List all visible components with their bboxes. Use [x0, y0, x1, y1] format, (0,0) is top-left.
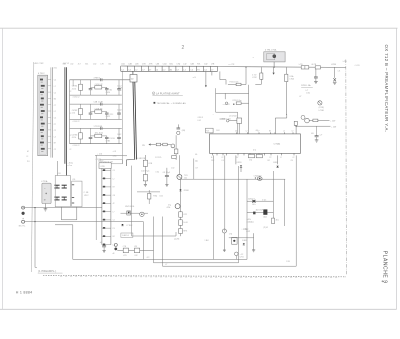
- IC U1 bottom pins: [212, 153, 214, 155]
- svg-text:B4: B4: [54, 99, 56, 101]
- svg-text:TECHNICAL + FORMULAS: TECHNICAL + FORMULAS: [157, 102, 187, 105]
- resistor R21 lead: [285, 82, 287, 115]
- svg-text:P7: P7: [54, 124, 56, 126]
- svg-text:+ 12V: + 12V: [330, 121, 336, 123]
- crystal X1 drop: [334, 67, 336, 78]
- step wire: [274, 118, 276, 134]
- svg-text:4C2: 4C2: [147, 257, 150, 259]
- connector CN1 pin stubs: [48, 79, 51, 81]
- wire into P2: [220, 118, 226, 120]
- svg-text:C426 L4P: C426 L4P: [95, 84, 104, 86]
- filter block 3 coupling cap: [100, 127, 102, 130]
- svg-text:L2: L2: [54, 111, 56, 113]
- svg-text:L/4: L/4: [338, 71, 340, 73]
- wire W3 down: [162, 217, 164, 267]
- capacitor C13: [118, 80, 120, 89]
- svg-text:MIC P.U.: MIC P.U.: [19, 225, 26, 227]
- wire h196: [137, 191, 160, 193]
- svg-text:L7: L7: [113, 211, 115, 213]
- supply rail wire: [296, 125, 330, 127]
- page bottom edge: [0, 308, 397, 310]
- svg-text:+ C/2Ω: + C/2Ω: [242, 228, 248, 230]
- resistor R20 lead: [260, 79, 262, 84]
- wire v3: [248, 85, 250, 134]
- svg-text:C4: C4: [54, 118, 56, 120]
- svg-text:C/42: C/42: [171, 168, 174, 170]
- svg-text:4k/L: 4k/L: [276, 219, 279, 221]
- svg-text:C/Ω2: C/Ω2: [216, 130, 220, 132]
- svg-text:P2: P2: [269, 157, 271, 159]
- svg-text:C42: C42: [204, 64, 207, 66]
- bus wire B: [52, 67, 54, 157]
- transistor Q10: [318, 101, 322, 105]
- relay K1 inner contact: [267, 54, 275, 60]
- transistor Q14: [222, 229, 226, 233]
- svg-text:(4Ω): (4Ω): [182, 130, 186, 132]
- svg-text:B4: B4: [269, 131, 271, 133]
- ground under C41: [165, 184, 168, 186]
- resistor R31: [163, 143, 167, 146]
- svg-text:L/7: L/7: [320, 134, 323, 136]
- svg-text:ΩΩ2: ΩΩ2: [263, 217, 267, 219]
- svg-text:1 Gm: 1 Gm: [53, 68, 58, 70]
- svg-text:L4B1 C7Ø2: L4B1 C7Ø2: [34, 63, 44, 65]
- label box C4: [121, 233, 133, 237]
- svg-text:C7 RΩ2: C7 RΩ2: [126, 225, 132, 227]
- svg-text:C42C: C42C: [106, 116, 111, 118]
- svg-text:L2: L2: [113, 178, 115, 180]
- ground under Q14: [223, 249, 226, 251]
- wire Q1 column: [180, 179, 182, 236]
- wire drop short: [211, 71, 213, 75]
- svg-text:4Ω2 mΩP: 4Ω2 mΩP: [256, 210, 264, 212]
- wire W1 horizontal: [25, 221, 144, 223]
- switch S2 ticks: [72, 184, 75, 186]
- svg-text:(1 PREAMPL.): (1 PREAMPL.): [38, 270, 56, 273]
- main supply wire: [217, 66, 345, 69]
- capacitor C32: [106, 136, 108, 137]
- capacitor C11: [90, 80, 92, 89]
- resistor R11: [79, 84, 83, 90]
- svg-text:1 TR 2 BF: 1 TR 2 BF: [94, 126, 103, 128]
- svg-text:P/2Ω 1 Ωm: P/2Ω 1 Ωm: [230, 82, 239, 84]
- svg-text:42: 42: [113, 203, 115, 205]
- diode D5: [235, 155, 237, 164]
- aux jack wire: [117, 249, 153, 251]
- svg-text:L4: L4: [54, 136, 56, 138]
- svg-text:C/7: C/7: [195, 168, 198, 170]
- svg-text:L7: L7: [54, 86, 56, 88]
- filter output wire: [95, 155, 127, 157]
- svg-text:C42B 40k: C42B 40k: [95, 108, 103, 110]
- page left edge: [2, 28, 4, 309]
- svg-text:1.5k: 1.5k: [72, 113, 75, 115]
- page top edge: [0, 27, 398, 29]
- svg-text:C42: C42: [184, 178, 187, 180]
- svg-text:4 C/Ω C2: 4 C/Ω C2: [73, 121, 80, 123]
- svg-text:4 C/2Ω: 4 C/2Ω: [98, 160, 104, 162]
- pot P50 dark box: [263, 209, 267, 214]
- svg-text:4/L: 4/L: [195, 154, 198, 156]
- bus wire C dark pair: [64, 67, 66, 164]
- svg-text:L42: L42: [183, 64, 186, 66]
- dark bus pair down: [133, 82, 135, 160]
- capacitor C31: [316, 126, 318, 136]
- drawing border bottom ruler: [43, 275, 346, 276]
- relay K1 lead: [273, 62, 275, 67]
- svg-text:4 C/Ω C2: 4 C/Ω C2: [73, 97, 80, 99]
- svg-text:1k 68: 1k 68: [183, 222, 187, 224]
- relay driver box: [232, 237, 238, 244]
- svg-text:L/7ΩΩ: L/7ΩΩ: [319, 110, 325, 112]
- svg-text:(-12V): (-12V): [174, 238, 179, 240]
- resistor R24: [228, 84, 236, 86]
- wire to gnd x253: [253, 233, 255, 250]
- bias capacitor C60: [177, 124, 179, 127]
- wire y93: [216, 92, 249, 94]
- svg-text:L7Ω2: L7Ω2: [252, 77, 256, 79]
- wire W1 up: [246, 179, 248, 259]
- svg-text:C/4Ω 1/4: C/4Ω 1/4: [122, 235, 129, 237]
- capacitor C22: [106, 112, 108, 113]
- svg-text:C2Ω: C2Ω: [163, 64, 167, 66]
- svg-text:C4: C4: [113, 170, 115, 172]
- svg-text:C/4Ω X: C/4Ω X: [198, 117, 204, 119]
- resistor R41: [179, 212, 183, 217]
- wire up from R24: [245, 67, 247, 84]
- svg-text:L4: L4: [283, 131, 285, 133]
- wire W1 down: [142, 222, 144, 260]
- svg-text:L/2Ω: L/2Ω: [343, 61, 347, 63]
- relay K1 coil: [273, 55, 276, 58]
- svg-text:⌜: ⌜: [213, 114, 214, 117]
- svg-text:A7Ωm Ω: A7Ωm Ω: [248, 198, 255, 201]
- capacitor C33: [118, 128, 120, 137]
- svg-text:LA PLATINE AVANT: LA PLATINE AVANT: [156, 92, 180, 95]
- page right edge: [396, 28, 398, 309]
- svg-text:B/4Ω 1 ΩΩ: B/4Ω 1 ΩΩ: [222, 119, 231, 121]
- transistor Q13: [171, 144, 175, 148]
- svg-text:C2: C2: [221, 157, 223, 159]
- ground x253: [252, 249, 255, 251]
- svg-text:4 TRL L/7ΩL: 4 TRL L/7ΩL: [265, 49, 278, 51]
- transformer TR-A stem: [44, 204, 46, 209]
- bias wire y179: [181, 178, 285, 180]
- svg-text:≈ +12 V: ≈ +12 V: [223, 104, 231, 106]
- svg-text:41.5k: 41.5k: [72, 137, 76, 139]
- wire W1 bottom: [143, 258, 247, 260]
- svg-text:B4L: B4L: [85, 63, 88, 65]
- svg-text:MV/2 Ω4 ΩL: MV/2 Ω4 ΩL: [125, 206, 134, 208]
- svg-text:(Ω): (Ω): [195, 161, 198, 163]
- svg-text:L/7ΩB: L/7ΩB: [331, 64, 337, 66]
- switch exit wires: [60, 207, 62, 220]
- bus wire D: [57, 161, 59, 176]
- svg-text:Z/4Ω2: Z/4Ω2: [273, 162, 278, 164]
- svg-text:C/4 1.5μF: C/4 1.5μF: [163, 172, 170, 174]
- svg-text:L/4 C7Ω4: L/4 C7Ω4: [229, 115, 237, 117]
- svg-text:C/42 47μm: C/42 47μm: [141, 171, 150, 173]
- svg-text:4 RB CL: 4 RB CL: [94, 77, 101, 79]
- input jack P2: [226, 119, 229, 122]
- small part: [172, 156, 177, 159]
- svg-text:C4: C4: [54, 80, 56, 82]
- input jack J1: [22, 206, 25, 209]
- svg-text:(CΩΩΩu): (CΩΩΩu): [247, 221, 255, 223]
- svg-text:C/2Ω: C/2Ω: [100, 166, 105, 168]
- svg-text:C/22: C/22: [183, 214, 187, 216]
- svg-text:4 TR A: 4 TR A: [41, 180, 48, 183]
- resistor row wire 1: [247, 200, 273, 202]
- coupling box A: [123, 248, 128, 253]
- filter block 2 bottom wire: [70, 118, 122, 120]
- wire top mixer: [95, 155, 97, 240]
- svg-text:C442: C442: [117, 134, 121, 136]
- svg-text:2: 2: [182, 45, 185, 51]
- drop to IC pin: [295, 126, 297, 134]
- svg-text:a./9: a./9: [193, 77, 196, 79]
- wire drop to J3: [132, 71, 134, 74]
- loop wire v2 to IC: [237, 112, 239, 134]
- registration dot: [382, 280, 384, 282]
- resistor R28: [294, 121, 297, 125]
- aux jack J4: [114, 243, 117, 246]
- resistor R31: [79, 133, 83, 139]
- resistor pair R33: [248, 154, 254, 157]
- loop wire bottom: [216, 111, 238, 113]
- svg-text:B7: B7: [54, 143, 56, 145]
- svg-text:P/2Ω 1 Ωm: P/2Ω 1 Ωm: [233, 100, 242, 102]
- lamp L1: [140, 212, 144, 216]
- svg-text:+ 12V: + 12V: [331, 127, 337, 129]
- zener D1: [179, 189, 181, 191]
- ground under C50: [102, 250, 105, 252]
- loop wire v1: [215, 88, 217, 112]
- ground under C30: [314, 81, 318, 83]
- filter block 3 top wire: [70, 127, 122, 129]
- ground under X1: [333, 81, 337, 83]
- terminal strip CN2: [121, 65, 218, 67]
- svg-text:P4.5Ω: P4.5Ω: [110, 138, 116, 140]
- capacitor C34 electrolytic: [235, 252, 239, 256]
- transformer TR-A body: [42, 183, 51, 203]
- junction on J1 wire: [34, 207, 35, 208]
- svg-text:4 Ω/2: 4 Ω/2: [137, 158, 141, 160]
- svg-text:C2: C2: [291, 131, 293, 133]
- svg-text:C/4Ω2: C/4Ω2: [242, 240, 247, 242]
- wire x274: [272, 171, 274, 224]
- resistor R26: [237, 118, 242, 123]
- connector CN3 top box: [99, 163, 111, 169]
- svg-text:B7: B7: [113, 187, 115, 189]
- resistor R42: [179, 220, 183, 226]
- input jack J2 dark: [22, 212, 25, 215]
- filter block 2 coupling cap: [100, 103, 102, 106]
- svg-text:OX 712 B – PREAMPLIFICATEUR Y.: OX 712 B – PREAMPLIFICATEUR Y.A.: [384, 45, 389, 133]
- svg-text:41.5k: 41.5k: [72, 88, 76, 90]
- resistor R22: [95, 110, 102, 113]
- svg-text:1 B/4: 1 B/4: [205, 240, 209, 242]
- svg-text:C2: C2: [69, 91, 71, 93]
- resistor R40: [144, 166, 146, 174]
- filter note box: [100, 160, 123, 164]
- svg-text:B7: B7: [236, 157, 238, 159]
- svg-text:L4Ω: L4Ω: [121, 64, 125, 66]
- wire drop corner: [219, 71, 221, 79]
- svg-text:CΩ2: CΩ2: [118, 90, 122, 92]
- svg-text:a 7cu: a 7cu: [68, 165, 72, 167]
- svg-text:H 1 8884: H 1 8884: [16, 291, 33, 295]
- resistor R21: [79, 109, 83, 115]
- transistor Q2 fet: [175, 204, 180, 209]
- IC U1 top pins: [236, 132, 238, 134]
- wire W2 down: [153, 217, 155, 263]
- transistor Q1: [177, 174, 182, 179]
- resistor R30: [156, 143, 160, 146]
- svg-text:C/7ΩΩ: C/7ΩΩ: [274, 144, 281, 146]
- ground arrow under wire: [273, 67, 275, 72]
- svg-text:470k: 470k: [167, 207, 171, 209]
- diode D3: [121, 224, 123, 226]
- wire drop with arrow: [205, 71, 207, 85]
- connector CN3 ladder: [101, 168, 103, 244]
- filter block 1 coupling cap: [100, 78, 102, 81]
- svg-text:+ C/4: + C/4: [97, 154, 102, 156]
- diode D8: [243, 243, 245, 245]
- filter block 1 top wire: [70, 79, 130, 81]
- svg-text:C/2 2/7k: C/2 2/7k: [155, 157, 161, 159]
- svg-text:C/4: C/4: [291, 160, 294, 162]
- dark bus corner: [127, 159, 135, 161]
- plug P1: [224, 93, 226, 99]
- svg-text:B/2: B/2: [268, 160, 271, 162]
- resistor R20 drop: [260, 67, 262, 73]
- svg-text:a. 4 TR: a. 4 TR: [229, 64, 236, 66]
- svg-text:C2: C2: [54, 130, 56, 132]
- ground under R40: [144, 181, 146, 184]
- wire W2 bottom: [154, 262, 239, 264]
- connector CN1 body: [38, 75, 48, 156]
- svg-text:B4L: B4L: [170, 64, 173, 66]
- svg-text:C2: C2: [54, 92, 56, 94]
- svg-text:4TR: 4TR: [149, 64, 153, 66]
- wire h213: [121, 212, 140, 214]
- junction box J3: [130, 75, 137, 83]
- capacitor C23: [118, 104, 120, 113]
- diode pair D10: [252, 200, 255, 203]
- drawing border right dash-dot: [345, 60, 348, 276]
- svg-text:C4Ω2: C4Ω2: [117, 110, 122, 112]
- resistor R20: [260, 73, 263, 79]
- long vertical from jacks: [34, 208, 36, 268]
- svg-text:ΩCu: ΩCu: [252, 204, 255, 206]
- transistor Q12: [301, 115, 305, 119]
- resistor R21: [285, 74, 288, 81]
- resistor R12: [95, 86, 102, 89]
- svg-text:CΩ2: CΩ2: [211, 160, 214, 162]
- svg-text:L7: L7: [280, 157, 282, 159]
- capacitor C41: [166, 168, 168, 176]
- transistor Q11: [305, 118, 310, 123]
- svg-text:4L2: 4L2: [256, 130, 259, 132]
- wire W3 up: [295, 155, 297, 266]
- input jack J3: [22, 220, 25, 223]
- resistor R21 drop: [285, 67, 287, 74]
- diode D6: [277, 155, 279, 164]
- svg-text:P2L: P2L: [197, 64, 200, 66]
- svg-text:C/42Ω: C/42Ω: [237, 162, 243, 164]
- relay K1 body: [264, 52, 285, 62]
- svg-text:LP.LY: LP.LY: [84, 195, 89, 197]
- svg-text:C7B5: C7B5: [106, 141, 111, 143]
- resistor row wire 2: [247, 212, 273, 214]
- svg-text:4L/7B: 4L/7B: [311, 64, 316, 66]
- svg-text:L/7: L/7: [299, 96, 301, 98]
- svg-text:4 C/Ω C2: 4 C/Ω C2: [73, 145, 80, 147]
- coupling box B: [134, 248, 139, 253]
- note circled ref: [152, 92, 155, 95]
- wire Q1 up: [178, 155, 180, 174]
- ground under TR-A: [44, 208, 48, 210]
- bus from first terminal: [121, 71, 123, 164]
- svg-text:L/7: L/7: [165, 264, 167, 266]
- resistor R32: [95, 134, 102, 137]
- svg-text:PLANCHE 9: PLANCHE 9: [382, 251, 388, 284]
- svg-text:(P) 42: (P) 42: [263, 227, 268, 229]
- wire v into IC region: [175, 135, 177, 160]
- led D2: [127, 211, 131, 215]
- wire y237.8: [229, 237, 254, 239]
- capacitor C21: [90, 104, 92, 113]
- svg-text:4L: 4L: [211, 157, 213, 159]
- svg-text:P/2Ω L Ωb: P/2Ω L Ωb: [301, 85, 311, 87]
- svg-text:47μ: 47μ: [168, 204, 171, 206]
- crystal X1: [333, 78, 336, 81]
- svg-text:L/42: L/42: [198, 120, 201, 122]
- svg-text:C7Ω: C7Ω: [176, 64, 180, 66]
- switch S2 frame: [72, 181, 82, 207]
- mixer loop box: [131, 166, 133, 236]
- svg-text:C7: C7: [54, 105, 56, 107]
- bus wire A: [50, 67, 52, 157]
- long pin wire a: [213, 155, 215, 259]
- wire W3 bottom: [163, 265, 297, 267]
- resistor R44: [148, 193, 151, 199]
- filter block 1 bottom wire: [70, 94, 122, 96]
- svg-text:4 TR 2: 4 TR 2: [38, 73, 45, 75]
- ground under C31: [316, 137, 318, 140]
- svg-text:+C/4: +C/4: [113, 151, 117, 153]
- wire x284: [284, 179, 286, 226]
- input jack J1 wire: [25, 207, 102, 209]
- wire to preamp label: [35, 266, 37, 268]
- junction at relay: [274, 67, 275, 68]
- svg-text:C2: C2: [69, 149, 71, 151]
- svg-text:C2: C2: [113, 220, 115, 222]
- svg-text:C7Ωb: C7Ωb: [289, 79, 294, 81]
- capacitor C31: [90, 128, 92, 137]
- oval lamp: [257, 177, 262, 181]
- svg-text:4C7: 4C7: [78, 63, 81, 65]
- svg-text:C2: C2: [54, 149, 56, 151]
- resistor R27: [313, 119, 318, 122]
- drawing border left: [31, 62, 33, 272]
- svg-text:C7ΩΩ Ω/2: C7ΩΩ Ω/2: [254, 175, 262, 177]
- trimmer bracket: [272, 218, 275, 224]
- svg-text:L2: L2: [246, 131, 248, 133]
- svg-text:+ C2: + C2: [240, 254, 244, 256]
- svg-text:RP/4: RP/4: [183, 231, 187, 233]
